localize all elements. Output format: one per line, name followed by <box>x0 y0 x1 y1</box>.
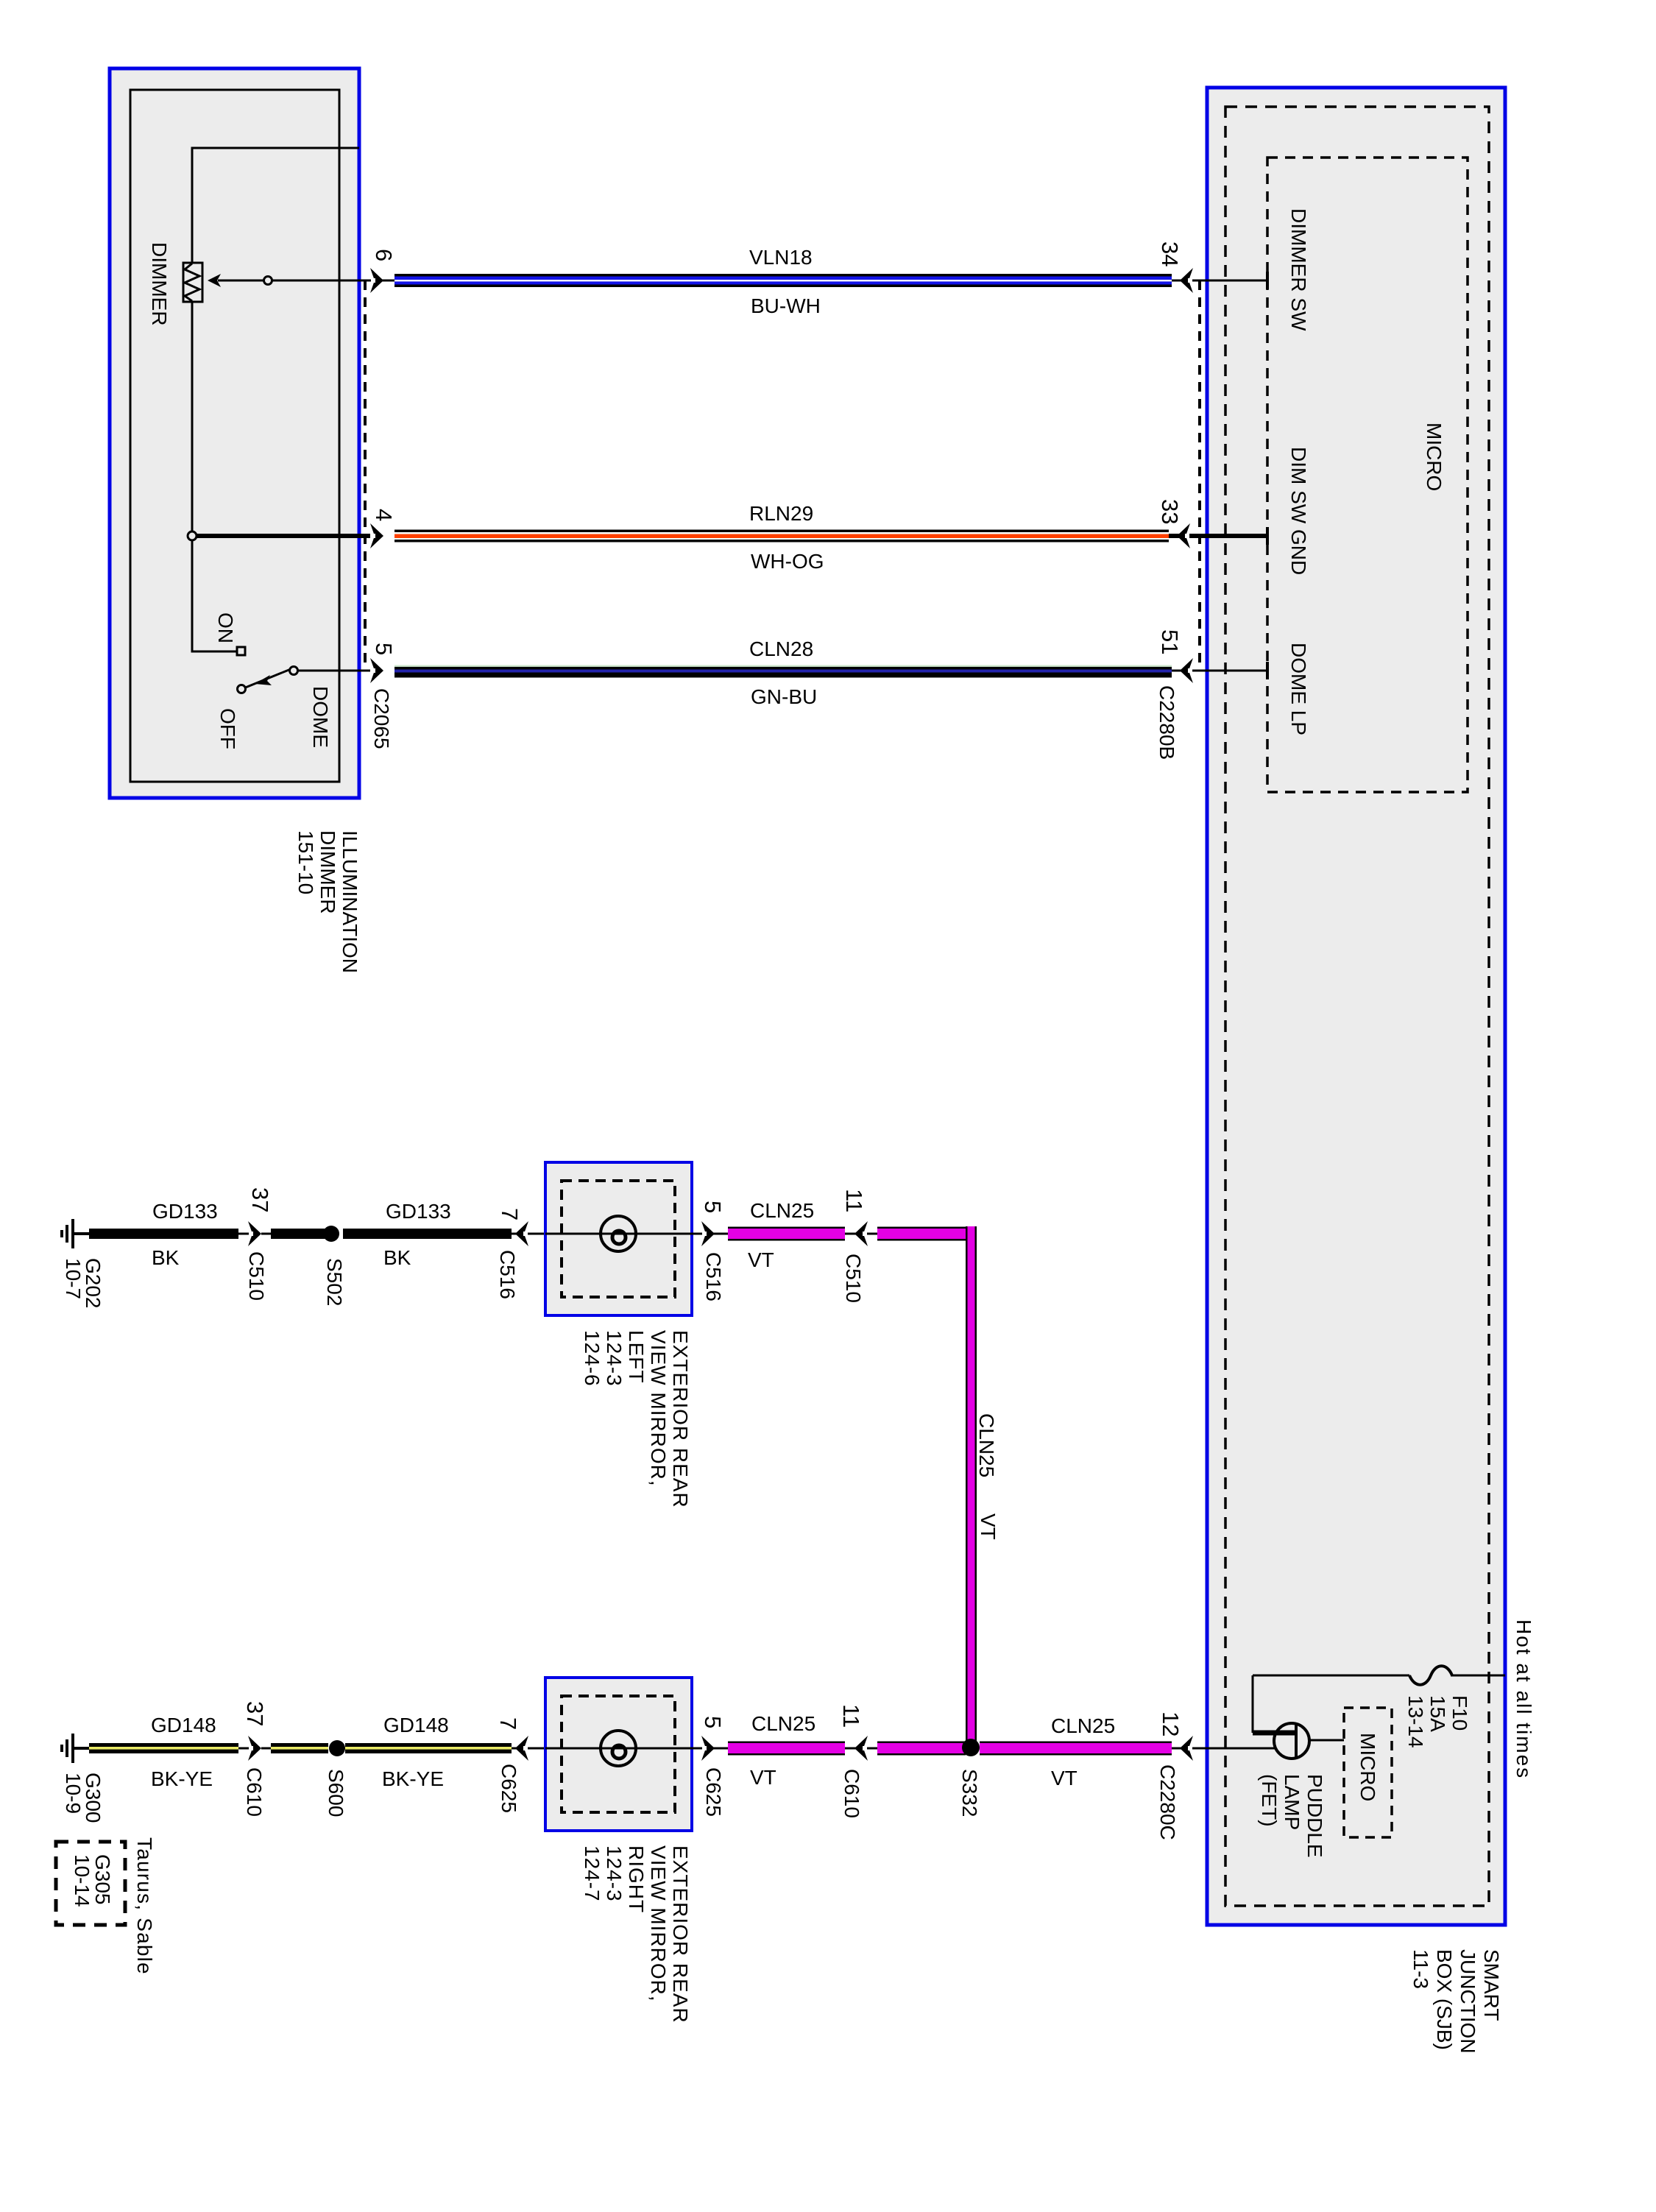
svg-text:5: 5 <box>371 643 397 655</box>
svg-text:S502: S502 <box>323 1258 346 1306</box>
dome switch blade <box>294 670 370 672</box>
smart junction box (SJB) <box>1207 88 1505 1925</box>
connector C510 pin 11 arrow <box>845 1233 877 1235</box>
wire CLN25 VT left mirror <box>728 1227 845 1241</box>
svg-text:C625: C625 <box>498 1764 520 1813</box>
wire CLN25 VT to splice <box>877 1742 966 1756</box>
puddle lamp FET transistor <box>1274 1723 1309 1759</box>
wire CLN25 VT right mirror <box>728 1742 845 1756</box>
connector C610 pin 11 arrow <box>845 1748 877 1750</box>
svg-text:GD133: GD133 <box>386 1200 451 1223</box>
svg-text:S332: S332 <box>958 1769 981 1817</box>
puddle lamp bulb right <box>601 1731 636 1766</box>
svg-text:Hot at all times: Hot at all times <box>1512 1619 1535 1779</box>
svg-text:WH-OG: WH-OG <box>751 550 824 573</box>
svg-text:CLN25: CLN25 <box>751 1712 815 1735</box>
svg-text:5: 5 <box>700 1716 726 1728</box>
svg-text:51: 51 <box>1157 629 1183 654</box>
svg-text:CLN25: CLN25 <box>750 1199 814 1222</box>
pin 4 connector arrow C2065 <box>370 523 383 548</box>
connector C2065 dashed line <box>364 280 367 671</box>
svg-text:34: 34 <box>1157 241 1183 266</box>
svg-text:VT: VT <box>1051 1767 1078 1789</box>
svg-text:BK-YE: BK-YE <box>382 1767 444 1790</box>
connector C610 pin 37 arrow <box>238 1748 250 1750</box>
ground G300 <box>62 1734 73 1763</box>
wire GD148 BK-YE segment 1 <box>89 1743 238 1753</box>
fuse to FET line <box>1252 1675 1254 1733</box>
svg-text:VT: VT <box>977 1513 999 1540</box>
MICRO dashed box bottom <box>1344 1708 1392 1837</box>
svg-text:BK-YE: BK-YE <box>151 1767 213 1790</box>
svg-text:MICRO: MICRO <box>1423 423 1446 491</box>
svg-text:DOME: DOME <box>309 686 332 748</box>
svg-text:ON: ON <box>214 612 237 643</box>
svg-text:C625: C625 <box>702 1767 725 1817</box>
svg-text:VT: VT <box>748 1248 774 1271</box>
connector C2280B dashed line <box>1198 280 1201 671</box>
wire GD133 BK segment 3 <box>343 1229 512 1239</box>
fuse F10 15A feed line (Hot at all times) <box>1253 1675 1409 1677</box>
svg-text:37: 37 <box>247 1187 273 1212</box>
svg-text:7: 7 <box>495 1717 521 1730</box>
wiper arrow of rheostat <box>218 280 370 282</box>
connector C510 pin 37 arrow <box>238 1233 250 1235</box>
svg-text:GD133: GD133 <box>152 1200 218 1223</box>
svg-text:C2280C: C2280C <box>1156 1764 1179 1840</box>
wire CLN25 VT to corner <box>877 1227 977 1241</box>
svg-text:DIMMER SW: DIMMER SW <box>1287 208 1310 331</box>
vertical wire CLN25 VT <box>966 1226 977 1748</box>
rheostat R (dimmer) <box>183 263 202 302</box>
connector C516 pin 7 arrow <box>512 1233 545 1235</box>
svg-text:MICRO: MICRO <box>1356 1733 1379 1801</box>
svg-text:5: 5 <box>700 1201 726 1213</box>
svg-text:GN-BU: GN-BU <box>751 685 817 708</box>
svg-text:37: 37 <box>242 1701 268 1726</box>
svg-text:33: 33 <box>1157 499 1183 524</box>
pin 34 connector arrow C2280B <box>1172 280 1267 282</box>
svg-text:C610: C610 <box>243 1767 266 1817</box>
ground G202 <box>62 1219 73 1248</box>
svg-text:11: 11 <box>838 1704 864 1728</box>
splice S502 <box>323 1226 339 1242</box>
svg-text:BK: BK <box>383 1246 411 1269</box>
svg-text:6: 6 <box>371 249 397 261</box>
svg-text:DIMMER: DIMMER <box>148 242 171 326</box>
svg-text:RLN29: RLN29 <box>749 502 813 525</box>
exterior rear view mirror right box <box>545 1678 692 1831</box>
pin 5 connector arrow C2065 <box>370 658 383 683</box>
MICRO dashed box <box>1267 158 1468 792</box>
svg-text:VLN18: VLN18 <box>749 246 813 269</box>
ON terminal <box>237 647 245 655</box>
wire CLN28 GN-BU <box>394 665 1172 678</box>
wire RLN29 WH-OG <box>394 530 1169 543</box>
svg-text:C2065: C2065 <box>370 688 393 749</box>
svg-text:DIM SW GND: DIM SW GND <box>1287 447 1310 575</box>
svg-text:BK: BK <box>152 1246 180 1269</box>
pin 33 connector arrow C2280B <box>1169 534 1267 538</box>
svg-text:VT: VT <box>750 1766 776 1789</box>
svg-text:G30510-14: G30510-14 <box>71 1854 114 1907</box>
svg-text:OFF: OFF <box>216 708 239 749</box>
dimmer feed line to pin 4 <box>194 534 370 538</box>
pin 6 connector arrow C2065 <box>370 280 394 282</box>
svg-text:C2280B: C2280B <box>1156 685 1178 760</box>
wire GD133 BK segment 1 <box>89 1229 238 1239</box>
wire GD133 segment 2 <box>271 1229 328 1239</box>
splice S332 <box>962 1739 980 1756</box>
connector C625 pin 7 arrow <box>512 1748 545 1750</box>
wire CLN25 VT to SJB <box>980 1742 1172 1756</box>
pin 51 connector arrow C2280B <box>1172 670 1267 672</box>
svg-text:GD148: GD148 <box>383 1714 449 1736</box>
wire GD148 segment 2 <box>271 1743 328 1753</box>
svg-text:CLN25: CLN25 <box>1051 1714 1115 1737</box>
illumination dimmer switch box <box>110 68 359 798</box>
svg-text:BU-WH: BU-WH <box>751 294 821 317</box>
ground block G305 dashed box <box>56 1842 125 1925</box>
svg-text:C516: C516 <box>496 1250 519 1299</box>
dimmer inner case rectangle <box>130 90 339 782</box>
svg-text:C610: C610 <box>841 1769 863 1818</box>
svg-text:4: 4 <box>371 509 397 521</box>
svg-text:CLN28: CLN28 <box>749 637 813 660</box>
svg-text:S600: S600 <box>325 1769 347 1817</box>
splice S600 <box>329 1740 345 1756</box>
svg-text:C510: C510 <box>842 1254 865 1303</box>
svg-text:GD148: GD148 <box>151 1714 216 1736</box>
svg-text:C516: C516 <box>702 1252 725 1301</box>
svg-text:11: 11 <box>841 1189 867 1212</box>
svg-text:DOME LP: DOME LP <box>1287 643 1310 735</box>
connector C2280C pin 12 arrow <box>1172 1748 1275 1750</box>
svg-text:C510: C510 <box>245 1251 268 1301</box>
wire VLN18 BU-WH <box>394 274 1172 287</box>
exterior rear view mirror left box <box>545 1162 692 1315</box>
connector C625 pin 5 arrow <box>692 1748 728 1750</box>
connector C516 pin 5 arrow <box>692 1233 728 1235</box>
svg-text:12: 12 <box>1158 1711 1183 1736</box>
puddle lamp bulb <box>601 1216 636 1251</box>
svg-text:7: 7 <box>497 1208 523 1220</box>
SJB inner dashed outline <box>1225 107 1489 1906</box>
dimmer internal circuit outline <box>192 148 359 651</box>
svg-text:CLN25: CLN25 <box>975 1413 998 1477</box>
wire GD148 BK-YE segment 3 <box>345 1743 512 1753</box>
svg-text:Taurus, Sable: Taurus, Sable <box>133 1837 156 1975</box>
